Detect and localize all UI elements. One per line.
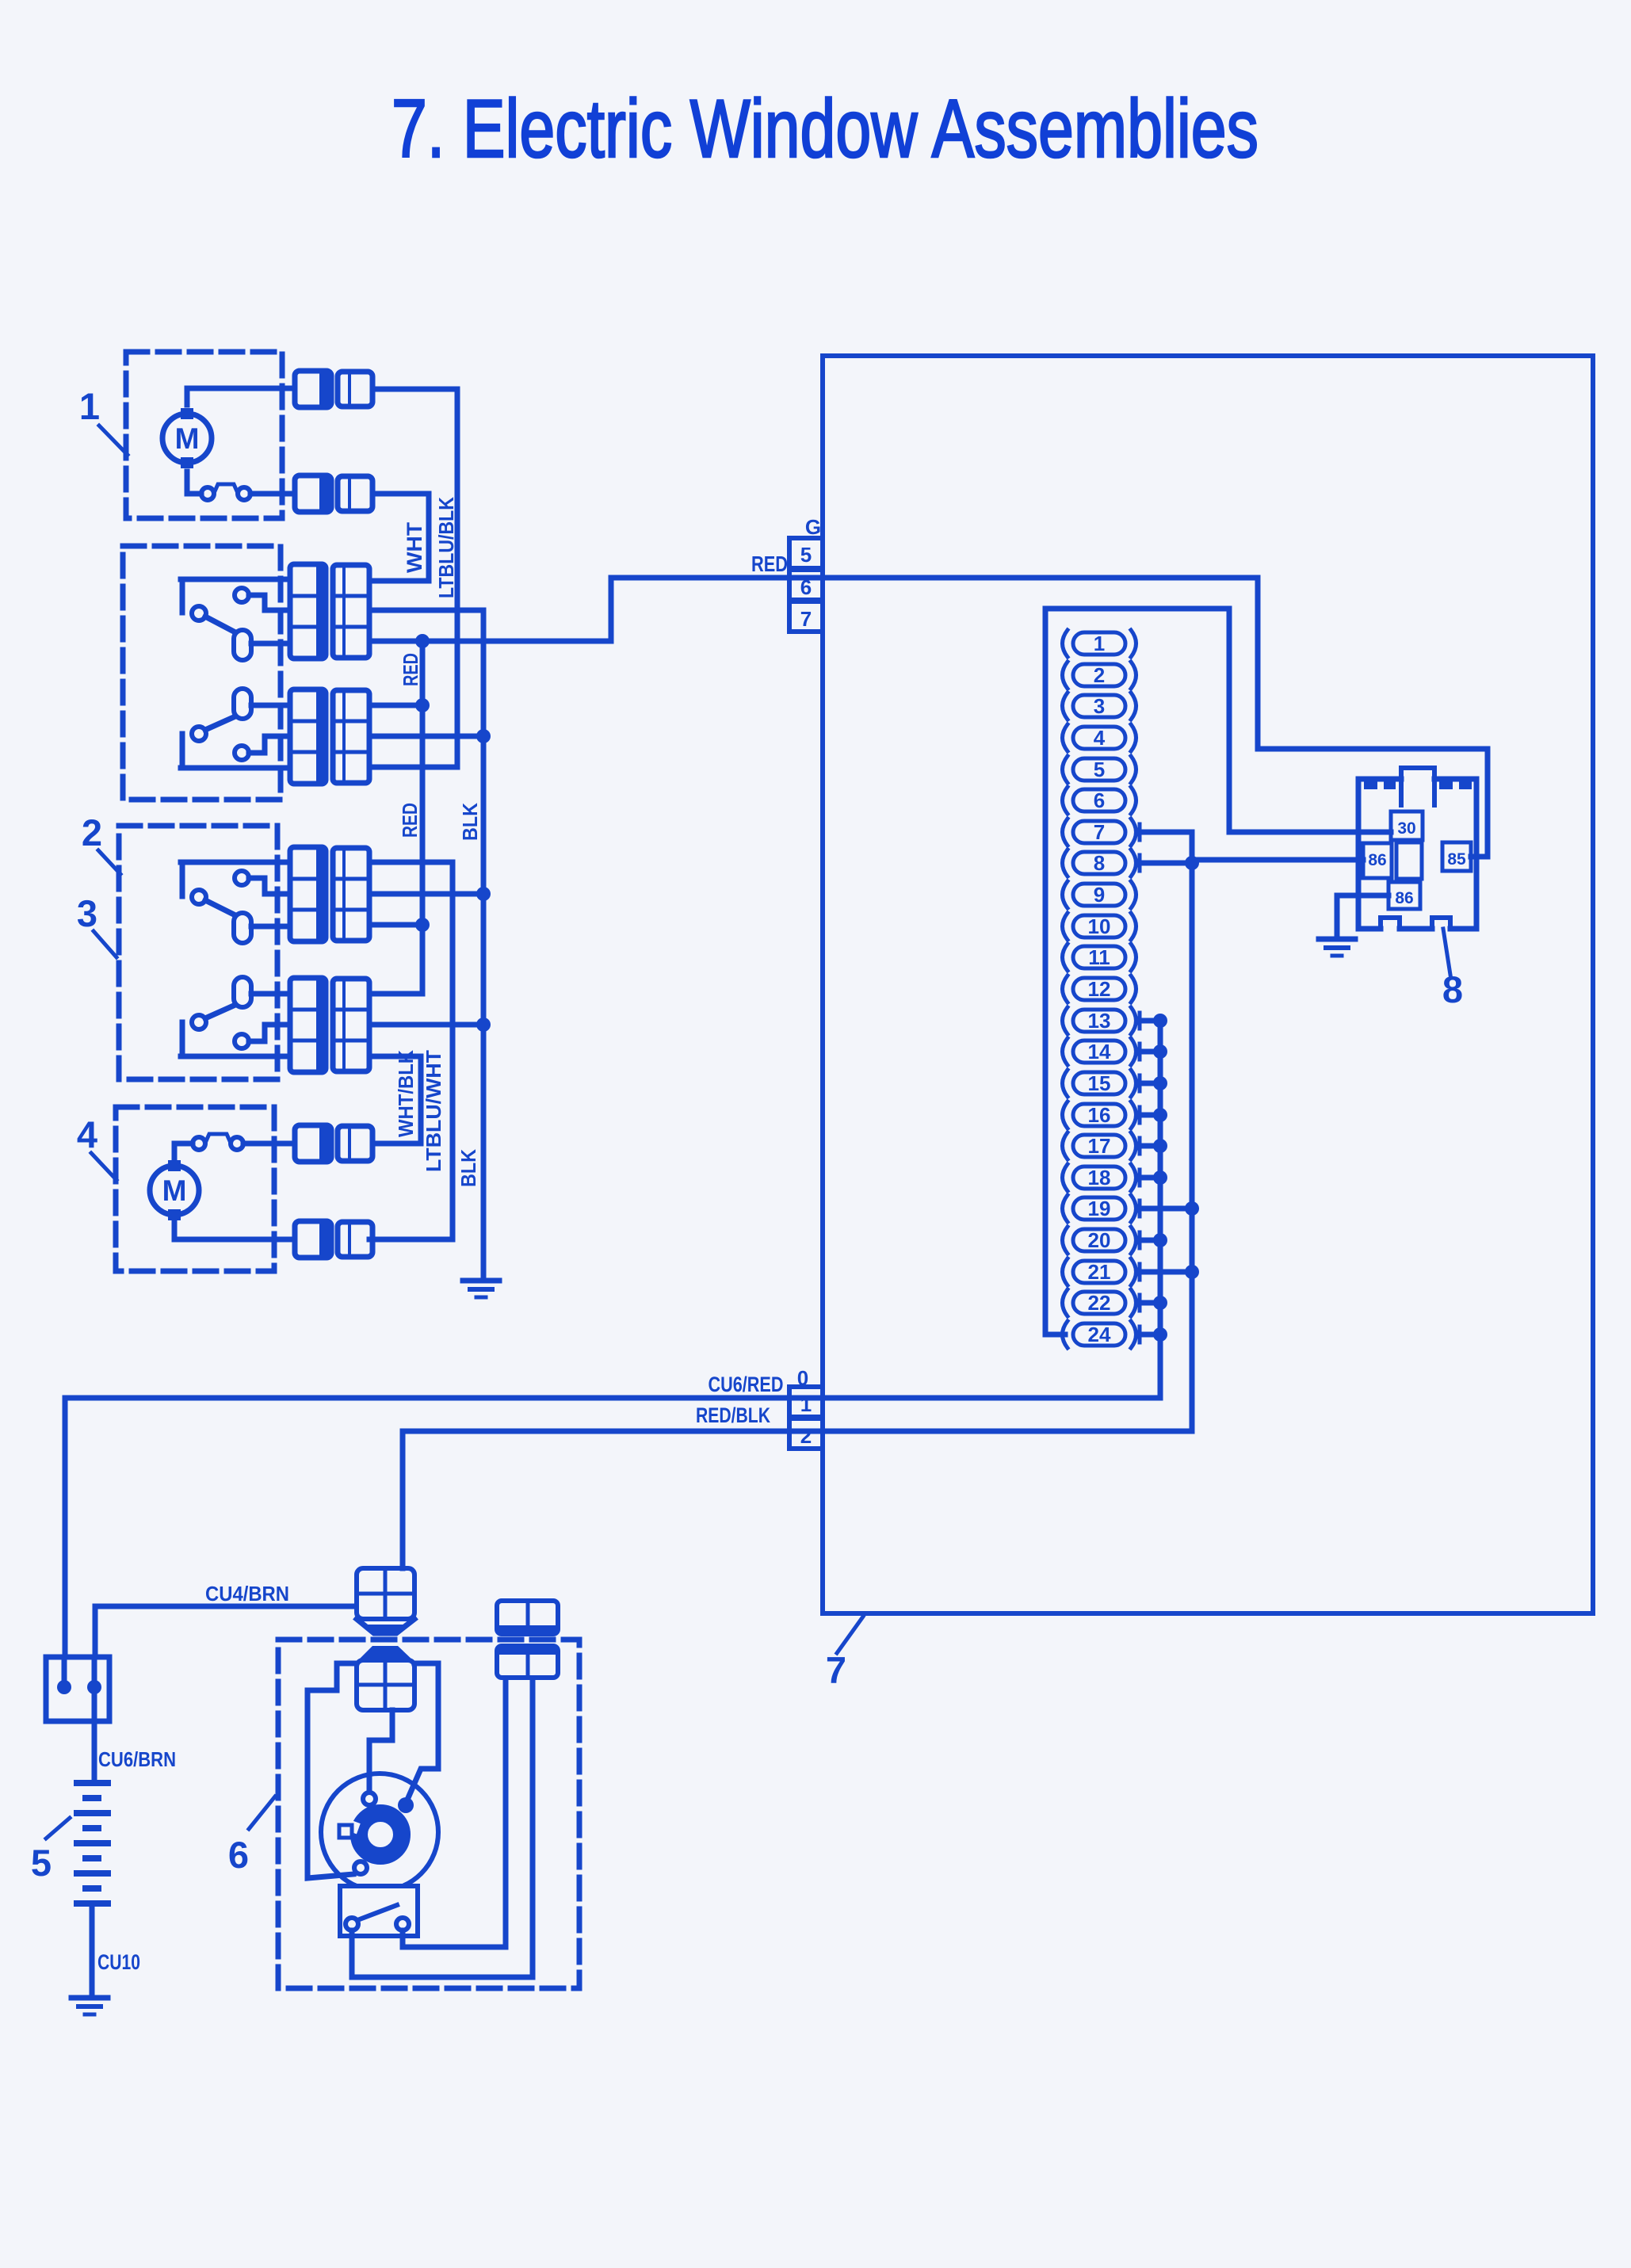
- svg-text:G: G: [805, 515, 821, 539]
- svg-text:LTBLU/WHT: LTBLU/WHT: [422, 1050, 445, 1172]
- svg-text:8: 8: [1442, 968, 1463, 1010]
- svg-text:22: 22: [1088, 1291, 1111, 1315]
- svg-text:13: 13: [1088, 1009, 1111, 1033]
- svg-text:2: 2: [800, 1424, 812, 1448]
- svg-text:CU6/RED: CU6/RED: [709, 1373, 784, 1396]
- svg-text:7: 7: [1094, 820, 1105, 844]
- svg-text:1: 1: [1094, 632, 1105, 655]
- svg-text:11: 11: [1088, 945, 1110, 969]
- svg-text:1: 1: [800, 1392, 812, 1416]
- svg-text:8: 8: [1094, 851, 1105, 875]
- svg-text:5: 5: [800, 543, 812, 567]
- svg-text:19: 19: [1088, 1197, 1111, 1220]
- svg-text:14: 14: [1088, 1040, 1111, 1063]
- svg-text:15: 15: [1088, 1071, 1111, 1095]
- svg-text:4: 4: [1094, 726, 1106, 750]
- svg-text:CU6/BRN: CU6/BRN: [98, 1747, 176, 1771]
- svg-text:18: 18: [1088, 1166, 1111, 1189]
- svg-text:3: 3: [1094, 694, 1105, 718]
- svg-text:9: 9: [1094, 883, 1105, 907]
- svg-text:LTBLU/BLK: LTBLU/BLK: [434, 497, 458, 598]
- svg-text:85: 85: [1447, 850, 1466, 869]
- svg-text:WHT: WHT: [403, 521, 426, 573]
- svg-text:6: 6: [800, 575, 812, 599]
- svg-text:WHT/BLK: WHT/BLK: [394, 1050, 418, 1137]
- svg-text:3: 3: [77, 892, 97, 934]
- svg-text:RED: RED: [398, 803, 422, 838]
- svg-text:10: 10: [1088, 914, 1111, 938]
- svg-text:86: 86: [1368, 851, 1386, 869]
- svg-text:5: 5: [1094, 758, 1105, 781]
- svg-text:16: 16: [1088, 1103, 1111, 1127]
- svg-text:4: 4: [77, 1113, 97, 1155]
- svg-text:BLK: BLK: [458, 803, 482, 841]
- svg-text:6: 6: [1094, 788, 1105, 812]
- svg-text:M: M: [175, 422, 200, 455]
- svg-text:2: 2: [1094, 663, 1105, 687]
- svg-text:21: 21: [1088, 1260, 1111, 1284]
- svg-text:7. Electric Window Assemblies: 7. Electric Window Assemblies: [392, 83, 1259, 175]
- svg-text:7: 7: [826, 1649, 846, 1691]
- svg-text:M: M: [162, 1174, 187, 1207]
- svg-text:RED/BLK: RED/BLK: [696, 1403, 770, 1427]
- svg-text:20: 20: [1088, 1228, 1111, 1252]
- svg-text:5: 5: [31, 1842, 52, 1884]
- svg-text:CU4/BRN: CU4/BRN: [205, 1582, 289, 1606]
- svg-text:17: 17: [1088, 1134, 1111, 1158]
- svg-text:RED: RED: [751, 552, 788, 576]
- svg-text:86: 86: [1395, 889, 1413, 907]
- svg-text:1: 1: [79, 385, 100, 427]
- svg-text:2: 2: [82, 811, 102, 853]
- svg-text:7: 7: [800, 607, 812, 631]
- svg-text:CU10: CU10: [97, 1950, 140, 1974]
- svg-text:6: 6: [228, 1834, 249, 1876]
- svg-text:30: 30: [1397, 819, 1415, 838]
- svg-text:24: 24: [1088, 1323, 1111, 1346]
- svg-text:12: 12: [1088, 977, 1111, 1001]
- svg-text:RED: RED: [399, 653, 422, 686]
- svg-text:BLK: BLK: [456, 1149, 480, 1187]
